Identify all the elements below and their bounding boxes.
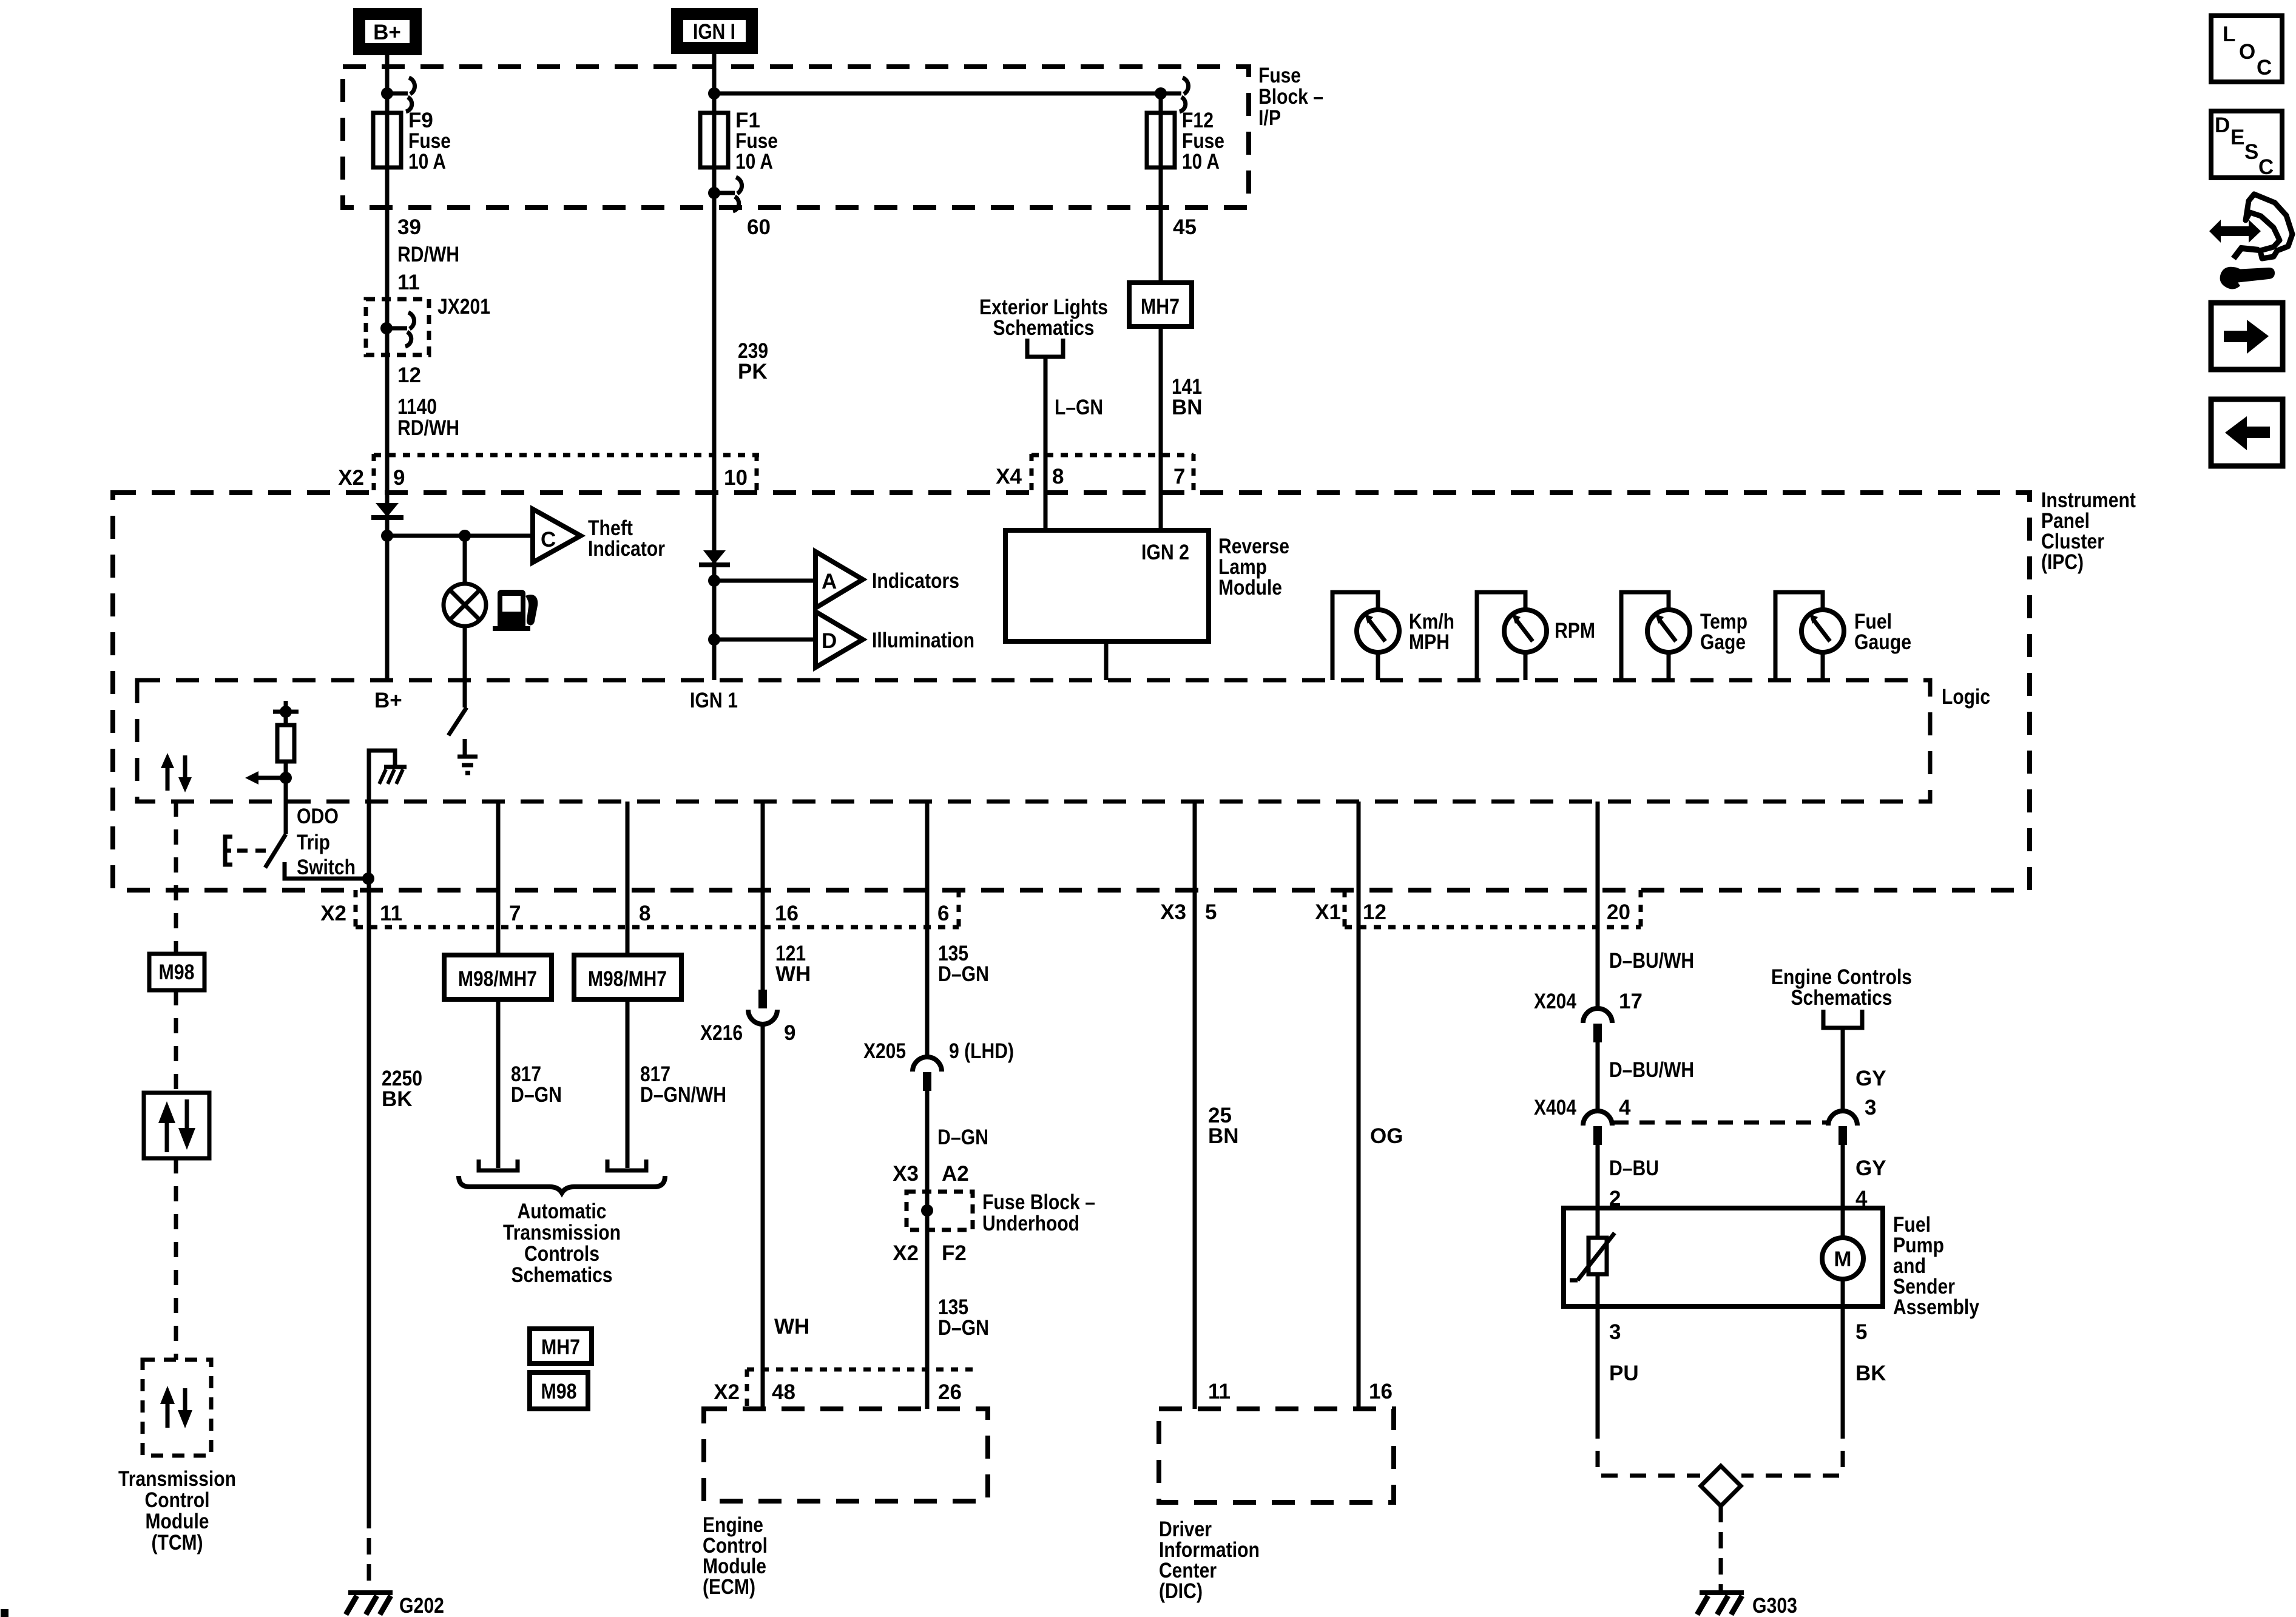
svg-text:E: E <box>2230 126 2244 149</box>
svg-text:MPH: MPH <box>1409 630 1450 654</box>
svg-text:G303: G303 <box>1752 1594 1797 1617</box>
svg-text:9 (LHD): 9 (LHD) <box>949 1039 1014 1063</box>
svg-text:26: 26 <box>938 1380 962 1404</box>
svg-text:O: O <box>2239 40 2255 64</box>
svg-text:X2: X2 <box>893 1241 919 1265</box>
svg-text:M: M <box>1834 1247 1851 1271</box>
odometer up/down arrows <box>161 753 192 792</box>
label F12 Fuse 10 A <box>1182 109 1224 174</box>
svg-text:Gauge: Gauge <box>1854 630 1911 654</box>
node junction on B+ at fuse clip <box>381 87 393 100</box>
svg-text:8: 8 <box>639 902 650 925</box>
label Driver Information Center (DIC) <box>1159 1517 1260 1603</box>
svg-text:X3: X3 <box>1160 900 1186 924</box>
svg-text:3: 3 <box>1865 1096 1876 1119</box>
ground chassis G303 <box>1697 1593 1744 1615</box>
label Theft Indicator <box>588 516 665 561</box>
label 121 WH <box>775 942 811 986</box>
ground chassis G202 <box>346 1593 393 1615</box>
driver triangle A <box>815 552 863 608</box>
node junction B+ net <box>381 530 393 542</box>
connector row X4 fine line <box>1032 453 1194 457</box>
svg-text:4: 4 <box>1619 1096 1631 1119</box>
junction JX201 dashed box <box>366 299 429 355</box>
svg-text:Gage: Gage <box>1700 630 1746 654</box>
svg-text:X2: X2 <box>320 902 346 925</box>
wire pin 8 vertical <box>626 802 630 955</box>
ECM dashed box <box>704 1409 988 1501</box>
nav icon hood wrench <box>2209 194 2292 289</box>
svg-text:16: 16 <box>1369 1380 1393 1403</box>
nav icon LOC box <box>2211 16 2282 82</box>
connector X404 <box>1583 1111 1612 1145</box>
svg-text:10 A: 10 A <box>408 150 446 174</box>
wire WH to ECM <box>761 1025 765 1409</box>
clip symbol at F12 <box>1161 78 1189 112</box>
resistor R odo <box>277 725 294 761</box>
connector X205 <box>913 1057 942 1091</box>
svg-text:10 A: 10 A <box>1182 150 1220 174</box>
gauge Fuel Gauge <box>1775 592 1844 680</box>
wire TCM dashed chain lower <box>174 1158 178 1360</box>
svg-text:11: 11 <box>397 271 420 294</box>
svg-text:5: 5 <box>1205 900 1217 924</box>
svg-text:Schematics: Schematics <box>993 316 1095 340</box>
module MH7 box <box>1129 283 1192 326</box>
fuse block underhood dashed box <box>907 1192 973 1230</box>
node junction fuse block underhood <box>921 1204 933 1217</box>
svg-text:Assembly: Assembly <box>1893 1295 1979 1319</box>
label Instrument Panel Cluster (IPC) <box>2041 488 2136 574</box>
svg-text:X205: X205 <box>863 1039 906 1063</box>
wire dashed E to switch <box>237 849 272 853</box>
fuse block I/P dashed box <box>343 67 1249 208</box>
svg-text:X204: X204 <box>1534 990 1576 1013</box>
connector separator X2 bottom <box>354 890 358 928</box>
svg-text:MH7: MH7 <box>1141 295 1180 319</box>
svg-text:1140: 1140 <box>397 395 437 419</box>
wire dashed X404 to GY connector <box>1613 1121 1829 1125</box>
node junction on IGN I line <box>708 87 720 100</box>
wire D-GN mid <box>925 1091 930 1409</box>
svg-text:(TCM): (TCM) <box>152 1531 203 1555</box>
label F1 Fuse 10 A <box>735 109 778 174</box>
svg-text:X1: X1 <box>1315 900 1341 924</box>
wire PU dashed <box>1598 1422 1700 1476</box>
label wire 141 BN <box>1172 375 1203 419</box>
svg-text:9: 9 <box>784 1021 795 1045</box>
brace automatic transmission <box>459 1176 665 1193</box>
svg-text:OG: OG <box>1370 1124 1403 1148</box>
svg-text:X3: X3 <box>893 1162 919 1186</box>
label Km/h MPH <box>1409 610 1454 654</box>
connector row bottom right fine line <box>1345 925 1641 930</box>
label 25 BN <box>1208 1104 1239 1148</box>
label Temp Gage <box>1700 610 1747 654</box>
svg-text:BK: BK <box>382 1087 413 1111</box>
node junction JX201 <box>380 322 393 334</box>
svg-text:(DIC): (DIC) <box>1159 1579 1203 1603</box>
wire ground hook in logic <box>369 751 395 802</box>
label Exterior Lights Schematics <box>979 295 1108 340</box>
label Engine Control Module (ECM) <box>703 1513 768 1599</box>
node junction below F1 <box>708 187 720 199</box>
label ODO Trip Switch <box>297 805 356 879</box>
svg-text:BN: BN <box>1208 1124 1239 1148</box>
svg-text:PU: PU <box>1609 1362 1639 1385</box>
svg-text:Automatic: Automatic <box>518 1200 607 1223</box>
label Engine Controls Schematics <box>1771 965 1912 1010</box>
label 817 D-GN/WH <box>640 1062 726 1107</box>
ground chassis small <box>379 767 407 784</box>
svg-text:(IPC): (IPC) <box>2041 550 2084 574</box>
label Fuel Gauge <box>1854 610 1911 654</box>
svg-text:B+: B+ <box>374 689 402 712</box>
power terminal IGN I <box>677 14 752 48</box>
svg-text:D–GN: D–GN <box>938 962 989 986</box>
svg-text:8: 8 <box>1052 465 1064 488</box>
node junction ODO to pin 11 <box>362 873 374 885</box>
module M98 box left <box>149 954 204 990</box>
wire BK solid <box>1841 1306 1845 1422</box>
svg-text:D–GN: D–GN <box>511 1083 562 1107</box>
logic dashed box <box>137 680 1930 802</box>
svg-text:11: 11 <box>380 902 402 925</box>
svg-text:S: S <box>2244 140 2258 164</box>
node junction odo <box>280 772 292 784</box>
clip symbol JX201 <box>387 312 414 346</box>
svg-text:Controls: Controls <box>524 1242 599 1266</box>
svg-text:M98/MH7: M98/MH7 <box>458 967 537 991</box>
connector separator X1 <box>1343 890 1347 928</box>
IPC dashed box <box>113 493 2030 890</box>
off-page bracket Engine Controls <box>1823 1010 1862 1028</box>
svg-text:3: 3 <box>1609 1320 1621 1344</box>
svg-text:48: 48 <box>772 1380 795 1404</box>
svg-text:A2: A2 <box>942 1162 969 1186</box>
svg-text:10: 10 <box>724 466 748 490</box>
svg-text:G202: G202 <box>399 1594 444 1617</box>
sender rheostat <box>1570 1208 1615 1306</box>
svg-text:Fuse: Fuse <box>1258 64 1301 87</box>
svg-text:60: 60 <box>747 215 771 239</box>
svg-text:5: 5 <box>1855 1320 1867 1344</box>
svg-text:RD/WH: RD/WH <box>397 243 459 266</box>
wire to theft indicator <box>387 534 533 538</box>
page artifact dot <box>1 1609 8 1617</box>
off-page bracket Exterior Lights <box>1027 339 1063 357</box>
svg-text:X2: X2 <box>714 1380 740 1404</box>
wire D-BU lower <box>1596 1145 1600 1208</box>
wire pin 11 vertical <box>367 802 371 1512</box>
motor M fuel pump <box>1822 1208 1863 1306</box>
svg-text:IGN I: IGN I <box>693 20 735 44</box>
arrow left odo signal <box>245 771 286 785</box>
switch blade lamp ground <box>448 707 467 735</box>
ground earth symbol <box>458 757 478 773</box>
connector separator X4 <box>1030 454 1034 493</box>
gauge Km/h MPH <box>1332 592 1399 680</box>
wire pin 20 vertical <box>1596 802 1600 1008</box>
connector row X2 top fine line <box>374 453 759 457</box>
label Fuse Block - I/P <box>1258 64 1323 130</box>
svg-text:ODO: ODO <box>297 805 339 828</box>
wire pin 7 vertical <box>496 802 501 955</box>
node junction illumination <box>708 633 720 646</box>
svg-text:(ECM): (ECM) <box>703 1575 755 1599</box>
connector row ECM fine line <box>747 1368 977 1372</box>
svg-text:Trip: Trip <box>297 831 330 854</box>
svg-text:D: D <box>2215 113 2230 137</box>
gauge Temp Gage <box>1621 592 1690 680</box>
svg-text:12: 12 <box>397 363 421 387</box>
svg-text:A: A <box>822 570 837 593</box>
svg-text:PK: PK <box>738 360 768 383</box>
data link arrows box <box>144 1093 209 1158</box>
svg-text:17: 17 <box>1619 990 1643 1013</box>
diode on B+ line <box>371 503 403 518</box>
power terminal B+ <box>359 14 416 49</box>
label X3 A2 <box>893 1162 969 1186</box>
nav icon arrow right box <box>2211 303 2283 370</box>
wire L-GN vertical <box>1044 357 1048 530</box>
svg-text:12: 12 <box>1363 900 1386 924</box>
svg-text:RPM: RPM <box>1555 619 1595 643</box>
label F9 Fuse 10 A <box>408 109 451 174</box>
svg-text:Module: Module <box>146 1510 209 1533</box>
svg-text:D–GN/WH: D–GN/WH <box>640 1083 726 1107</box>
svg-text:Underhood: Underhood <box>982 1212 1079 1235</box>
label wire 239 PK <box>738 339 768 383</box>
label 817 D-GN <box>511 1062 562 1107</box>
label wire 1140 RD/WH <box>397 395 459 440</box>
svg-text:D–BU/WH: D–BU/WH <box>1609 949 1694 973</box>
connector row bottom left fine line <box>356 925 959 930</box>
svg-text:6: 6 <box>937 902 949 925</box>
svg-text:M98: M98 <box>159 960 195 984</box>
reverse lamp module box <box>1005 530 1209 641</box>
svg-text:39: 39 <box>397 215 421 239</box>
svg-text:D–BU: D–BU <box>1609 1156 1659 1180</box>
label 135 D-GN <box>938 942 989 986</box>
fuel pump and sender assembly box <box>1564 1208 1883 1306</box>
label wire 39 RD/WH <box>397 215 459 266</box>
TCM dashed box <box>143 1360 211 1456</box>
wire to D triangle <box>714 638 815 642</box>
svg-text:D–BU/WH: D–BU/WH <box>1609 1058 1694 1082</box>
svg-text:BN: BN <box>1172 396 1203 419</box>
svg-text:IGN 1: IGN 1 <box>690 689 738 712</box>
node junction lamp tap <box>459 530 471 542</box>
svg-text:I/P: I/P <box>1258 106 1281 130</box>
node junction indicators <box>708 575 720 587</box>
indicator lamp symbol <box>444 584 486 626</box>
svg-text:X404: X404 <box>1534 1096 1576 1119</box>
connector separator right of 6 <box>957 890 961 928</box>
svg-text:Schematics: Schematics <box>512 1263 613 1287</box>
svg-text:WH: WH <box>775 962 811 986</box>
fuse F12 <box>1147 113 1175 167</box>
fuse F9 <box>373 113 401 167</box>
svg-text:WH: WH <box>774 1315 809 1338</box>
svg-text:D–GN: D–GN <box>938 1316 989 1340</box>
svg-text:L–GN: L–GN <box>1055 396 1103 419</box>
svg-text:Logic: Logic <box>1942 685 1990 709</box>
switch blade ODO trip <box>265 834 286 868</box>
wire reverse lamp module output <box>1104 641 1109 680</box>
svg-text:Schematics: Schematics <box>1791 986 1893 1010</box>
wire pin 12 OG vertical <box>1357 802 1361 1409</box>
module MH7 small box <box>530 1329 592 1363</box>
terminal bracket wire 817b <box>607 1160 646 1170</box>
label Reverse Lamp Module <box>1218 535 1289 599</box>
svg-text:C: C <box>2258 155 2274 179</box>
wire diamond to ground dashed <box>1719 1506 1723 1591</box>
node junction at F12 top <box>1155 87 1167 100</box>
svg-text:7: 7 <box>509 902 521 925</box>
svg-text:Module: Module <box>1218 576 1282 599</box>
label Automatic Transmission Controls Schematics <box>503 1200 621 1287</box>
svg-text:F2: F2 <box>942 1241 967 1265</box>
label Fuel Pump and Sender Assembly <box>1893 1213 1979 1319</box>
fuel pump icon <box>493 590 538 631</box>
svg-text:X4: X4 <box>996 465 1022 488</box>
svg-text:C: C <box>541 528 556 552</box>
connector X216 <box>748 990 777 1024</box>
connector separator X2 ECM <box>745 1369 749 1408</box>
connector separator right of 10 <box>755 454 759 493</box>
svg-text:Indicators: Indicators <box>872 569 959 593</box>
wire switch stub <box>463 739 467 755</box>
connector GY pin 3 <box>1828 1111 1857 1145</box>
svg-text:B+: B+ <box>373 21 401 44</box>
wire D-BU/WH mid <box>1596 1042 1600 1111</box>
svg-text:10 A: 10 A <box>735 150 773 174</box>
wire lamp to switch <box>463 626 467 707</box>
connector X204 <box>1583 1008 1612 1042</box>
svg-text:IGN 2: IGN 2 <box>1141 541 1189 564</box>
DIC dashed box <box>1159 1409 1394 1502</box>
svg-text:MH7: MH7 <box>541 1335 580 1359</box>
wire IGN I vertical <box>712 48 717 680</box>
wire to A triangle <box>714 579 815 583</box>
connector separator X2 <box>372 454 376 493</box>
switch contact ODO <box>285 862 368 879</box>
svg-text:X216: X216 <box>700 1021 743 1045</box>
wire F12 vertical <box>1159 93 1163 530</box>
clip symbol at F9 <box>387 78 415 112</box>
connector separator right of 7 <box>1192 454 1196 493</box>
connector separator right of 20 <box>1639 890 1643 928</box>
splice diamond <box>1701 1466 1741 1506</box>
svg-text:JX201: JX201 <box>437 295 490 319</box>
wire lamp drop <box>463 536 467 584</box>
wire PU solid <box>1596 1306 1600 1422</box>
fuse F1 <box>700 113 728 167</box>
wire pin 5 BN vertical <box>1193 802 1197 1409</box>
wire 817 D-GN <box>496 999 501 1168</box>
svg-text:M98: M98 <box>541 1380 577 1403</box>
svg-text:RD/WH: RD/WH <box>397 416 459 440</box>
svg-text:Fuse Block –: Fuse Block – <box>982 1190 1095 1214</box>
wire 817 D-GN/WH <box>626 999 630 1168</box>
label Fuse Block - Underhood <box>982 1190 1095 1235</box>
svg-text:GY: GY <box>1855 1156 1886 1180</box>
terminal bracket wire 817 <box>479 1160 518 1170</box>
svg-text:M98/MH7: M98/MH7 <box>588 967 667 991</box>
clip symbol below F1 <box>714 177 742 211</box>
svg-text:9: 9 <box>393 466 405 490</box>
label wire 2250 BK <box>382 1067 422 1111</box>
svg-text:D–GN: D–GN <box>937 1126 988 1149</box>
svg-text:Indicator: Indicator <box>588 537 665 561</box>
theft indicator triangle C <box>533 509 581 562</box>
wire pin 11 dashed to ground <box>367 1512 371 1591</box>
svg-text:C: C <box>2257 56 2272 79</box>
label E actuator <box>225 837 232 865</box>
svg-text:Control: Control <box>145 1488 210 1512</box>
nav icon DESC box <box>2211 111 2282 179</box>
wire TCM dashed chain upper <box>174 802 178 954</box>
svg-text:20: 20 <box>1607 900 1630 924</box>
wire TCM dashed chain mid <box>174 990 178 1093</box>
svg-text:L: L <box>2223 22 2235 46</box>
diode on IGN 1 line <box>699 550 730 565</box>
wire B+ vertical <box>385 55 390 680</box>
svg-text:BK: BK <box>1855 1362 1886 1385</box>
svg-text:GY: GY <box>1855 1067 1886 1090</box>
nav icon arrow left box <box>2211 399 2283 466</box>
gauge RPM <box>1477 592 1547 680</box>
label X2 F2 <box>893 1241 967 1265</box>
label Transmission Control Module (TCM) <box>118 1467 236 1555</box>
module M98 small box <box>530 1372 588 1409</box>
wire pin 16 vertical <box>761 802 765 991</box>
label 135 D-GN lower <box>938 1295 989 1340</box>
svg-text:45: 45 <box>1173 215 1197 239</box>
driver triangle D <box>815 612 863 667</box>
svg-text:11: 11 <box>1208 1380 1231 1403</box>
svg-text:16: 16 <box>775 902 799 925</box>
resistor odometer sensor top tap <box>273 701 299 725</box>
svg-text:Illumination: Illumination <box>872 629 974 652</box>
svg-text:Block –: Block – <box>1258 85 1323 109</box>
wire GY from engine controls <box>1841 1028 1845 1111</box>
wire pin 6 vertical <box>925 802 930 1057</box>
wire horizontal IGN I to F12 <box>714 92 1161 96</box>
module M98/MH7 box 2 <box>574 955 681 999</box>
svg-text:7: 7 <box>1173 465 1185 488</box>
svg-text:D: D <box>822 629 837 653</box>
module M98/MH7 box 1 <box>444 955 552 999</box>
wire GY lower <box>1841 1145 1845 1208</box>
svg-text:Switch: Switch <box>297 856 356 879</box>
svg-text:Transmission: Transmission <box>118 1467 236 1491</box>
svg-text:Transmission: Transmission <box>503 1221 621 1244</box>
svg-text:X2: X2 <box>338 466 364 490</box>
wire resistor to junction <box>284 761 288 834</box>
wire BK dashed <box>1741 1422 1843 1476</box>
